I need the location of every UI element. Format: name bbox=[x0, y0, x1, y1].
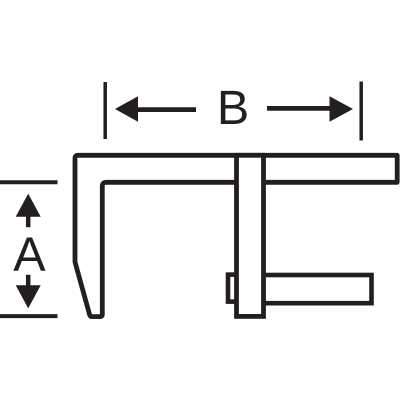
dimension B left arrow bbox=[115, 96, 196, 122]
clamp pad (fixed pad left of slider bar) bbox=[228, 275, 246, 302]
dimension A up arrow bbox=[16, 194, 41, 228]
dimension A down arrow bbox=[16, 275, 41, 309]
dimension B right arrow bbox=[267, 96, 353, 122]
svg-text:B: B bbox=[217, 81, 249, 135]
dimension A top tick bbox=[0, 180, 58, 184]
clamp lower arm bbox=[255, 275, 372, 303]
dimension B left extension line bbox=[103, 82, 107, 139]
clamp frame (top rail + fixed left jaw) bbox=[75, 155, 397, 316]
clamp slider bar bbox=[237, 155, 264, 316]
dimension B right extension line bbox=[359, 82, 363, 141]
svg-text:A: A bbox=[13, 227, 46, 281]
dimension A bottom tick bbox=[0, 314, 58, 318]
